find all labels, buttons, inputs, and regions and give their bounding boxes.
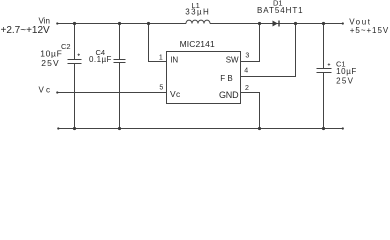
svg-text:1: 1	[159, 54, 163, 61]
svg-text:25V: 25V	[336, 77, 354, 86]
svg-text:25V: 25V	[41, 58, 59, 68]
svg-text:Vc: Vc	[170, 89, 181, 99]
svg-text:Vc: Vc	[39, 86, 53, 95]
svg-text:GND: GND	[219, 90, 239, 100]
svg-text:BAT54HT1: BAT54HT1	[257, 6, 304, 15]
svg-text:4: 4	[244, 68, 248, 75]
svg-text:FB: FB	[220, 74, 235, 83]
svg-text:0.1µF: 0.1µF	[89, 55, 112, 64]
svg-text:IN: IN	[170, 55, 178, 64]
svg-text:3: 3	[245, 52, 249, 59]
svg-text:MIC2141: MIC2141	[180, 39, 215, 49]
svg-text:+5~+15V: +5~+15V	[350, 26, 389, 35]
svg-text:+2.7~+12V: +2.7~+12V	[1, 25, 51, 36]
svg-text:SW: SW	[226, 55, 239, 64]
svg-text:10µF: 10µF	[336, 67, 357, 76]
svg-text:5: 5	[159, 85, 163, 92]
svg-text:33µH: 33µH	[185, 7, 210, 16]
svg-text:2: 2	[245, 85, 249, 92]
svg-text:10µF: 10µF	[40, 49, 62, 59]
